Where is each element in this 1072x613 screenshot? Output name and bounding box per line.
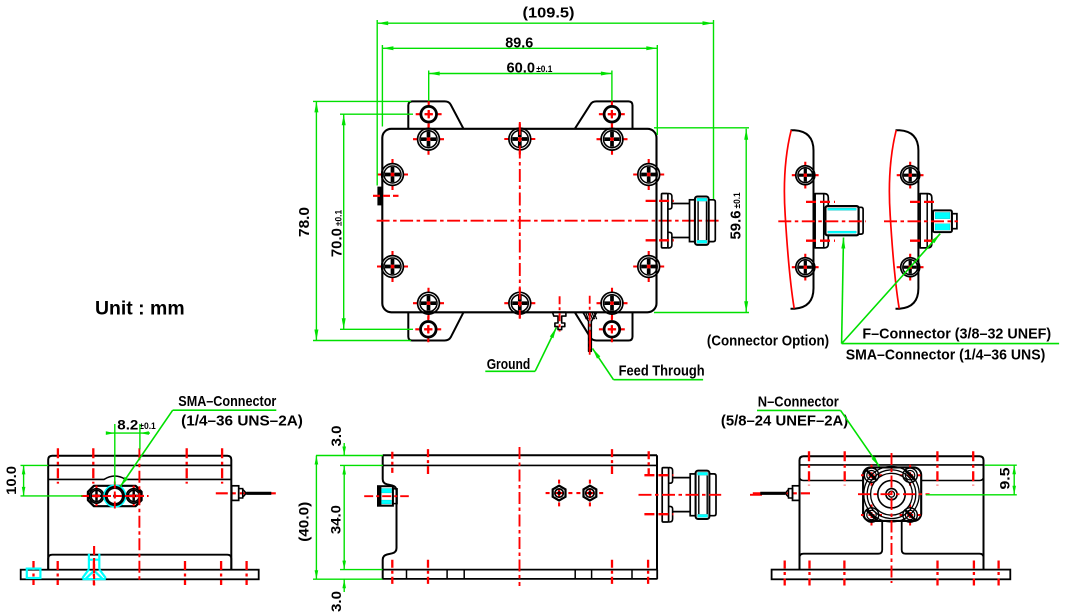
left end view: base plate <box>21 570 259 580</box>
top view: cover screw 1 <box>413 124 444 155</box>
left end view: bottom band <box>48 555 231 570</box>
option view A: flange hole centerlines <box>806 202 835 241</box>
top view: ground lug <box>553 296 566 331</box>
dimension 3.0 bottom <box>328 561 346 612</box>
top view: cover screw 6 <box>597 288 628 319</box>
option view A: screw upper <box>792 162 819 189</box>
option view A: screw lower <box>792 254 819 281</box>
top view: cover screw 9 <box>633 159 664 190</box>
option view A: break line <box>784 130 794 308</box>
top view: cover screw 8 <box>377 251 408 282</box>
left end view: base centerline ticks <box>34 561 247 585</box>
dimension 3.0 top <box>316 425 383 474</box>
right end view: N flange <box>863 467 921 521</box>
svg-text:N–Connector: N–Connector <box>758 394 839 410</box>
label (Connector Option) <box>707 333 829 349</box>
svg-text:SMA–Connector (1/4–36 UNS): SMA–Connector (1/4–36 UNS) <box>846 347 1046 363</box>
svg-text:Feed Through: Feed Through <box>619 363 705 379</box>
side view: flange hole centerlines <box>644 475 673 514</box>
label Feed Through with leader <box>593 348 705 379</box>
right end view: flange hole 2 <box>900 465 921 486</box>
dimension 78.0 tab extent <box>297 101 411 340</box>
left end view: block screw right <box>123 486 143 506</box>
left end view: countersunk screw symbol (cyan) <box>82 546 105 586</box>
option view B: screw lower <box>897 254 924 281</box>
left end view: washer symbol (cyan) <box>27 569 41 578</box>
svg-text:(1/4–36 UNS–2A): (1/4–36 UNS–2A) <box>181 414 303 430</box>
side view: connector centerline <box>639 494 763 496</box>
side view: lid seam <box>383 464 657 466</box>
dimension 8.2±0.1 <box>106 416 156 484</box>
top view: enclosure body outline <box>382 129 656 312</box>
top view: tab screw top-left <box>416 101 442 127</box>
label SMA-Connector option <box>846 347 1046 363</box>
top view: mounting tab top-left <box>408 101 463 128</box>
option view A: F-connector barrel <box>825 206 863 235</box>
left end view: screw centerline ticks (top) <box>58 448 222 483</box>
top view: cover screw 5 <box>504 288 535 319</box>
top view: tab screw top-right <box>599 101 625 127</box>
top view: tab screw bottom-right <box>599 316 625 342</box>
svg-text:SMA–Connector: SMA–Connector <box>178 394 276 410</box>
option view B: flange plate <box>920 194 932 248</box>
right end view: vertical centerline <box>891 453 893 583</box>
left end view: body outline <box>48 456 231 570</box>
left end view: connector row centerline <box>81 495 149 497</box>
dimension 10.0 <box>3 465 82 496</box>
side view: ground hex nut <box>546 480 573 507</box>
left end view: SMA connector block <box>88 486 142 506</box>
top view: mounting tab bottom-right <box>575 312 633 340</box>
label N-Connector with leader <box>721 394 880 466</box>
right end view: body outline <box>800 456 984 569</box>
dimension 89.6 body length <box>382 35 657 135</box>
dimension (40.0) <box>296 456 383 580</box>
left end view: SMA jack highlighted <box>105 486 126 507</box>
top view: cover screw 3 <box>597 124 628 155</box>
top view: cover screw 7 <box>377 159 408 190</box>
option view A: partial body outline <box>791 130 814 309</box>
right end view: lid seam <box>800 464 984 466</box>
option view B: break line <box>889 130 899 308</box>
top view: cover screw 2 <box>504 124 535 155</box>
top view: connector flange hole centerlines <box>646 201 674 240</box>
side view: vertical centerline <box>519 447 521 586</box>
svg-text:±0.1: ±0.1 <box>139 420 156 431</box>
right end view: horizontal centerline <box>858 493 930 495</box>
left end view: face seam with boss <box>48 476 231 479</box>
option view B: SMA connector barrel <box>933 210 957 232</box>
option view A: flange plate <box>815 194 828 248</box>
right end view: flange hole 1 <box>861 465 882 486</box>
svg-text:(5/8–24 UNEF–2A): (5/8–24 UNEF–2A) <box>721 414 848 430</box>
right end view: face seam <box>800 477 984 481</box>
side view: screw ticks top <box>392 449 648 476</box>
right end view: base centerline ticks <box>785 561 999 586</box>
svg-text:3.0: 3.0 <box>328 425 344 446</box>
dimension 59.6±0.1 body height <box>654 128 749 313</box>
left end view: lid seam <box>48 464 231 466</box>
svg-text:34.0: 34.0 <box>328 505 344 534</box>
dimension 60.0±0.1 tab screw spacing <box>429 61 612 102</box>
top view: tab screw bottom-left <box>415 316 441 342</box>
top view: vertical centerline <box>519 122 521 318</box>
dimension 70.0±0.1 tab screw spacing vertical <box>330 114 413 329</box>
svg-text:9.5: 9.5 <box>997 467 1013 489</box>
left end view: vertical centerline <box>138 448 140 583</box>
svg-text:(109.5): (109.5) <box>523 6 575 22</box>
side view: screw ticks bottom <box>392 560 648 584</box>
svg-text:59.6: 59.6 <box>729 211 745 240</box>
label SMA-Connector with leader <box>120 394 303 487</box>
svg-text:(40.0): (40.0) <box>296 502 312 542</box>
svg-text:78.0: 78.0 <box>297 207 313 237</box>
top view: mounting tab top-right <box>575 101 633 128</box>
dimension 9.5 <box>926 465 1017 495</box>
left end view: feed-through pin right <box>216 486 279 501</box>
top view: cover screw 10 <box>633 251 664 282</box>
dimension 34.0 <box>328 466 383 570</box>
side view: feed-through hex nut <box>576 480 603 507</box>
top view: mounting tab bottom-left <box>408 312 463 340</box>
svg-text:3.0: 3.0 <box>328 591 344 612</box>
option view B: flange hole centerlines <box>910 202 938 241</box>
dimension (109.5) total length <box>377 6 713 199</box>
top view: feed-through <box>583 296 597 358</box>
svg-text:±0.1: ±0.1 <box>732 192 743 209</box>
label Unit : mm <box>95 299 185 320</box>
option view B: partial body outline <box>896 130 919 309</box>
option view B: centerline <box>884 220 958 222</box>
right end view: screw ticks top <box>809 451 973 485</box>
top view: N-connector profile (right wall) <box>662 194 716 248</box>
top view: horizontal centerline <box>377 220 722 222</box>
right end view: flange hole 4 <box>900 505 921 526</box>
option view A: centerline <box>778 220 866 222</box>
svg-text:F–Connector (3/8–32 UNEF): F–Connector (3/8–32 UNEF) <box>862 327 1051 343</box>
right end view: N connector rings <box>864 467 919 522</box>
svg-text:8.2: 8.2 <box>117 416 138 432</box>
svg-text:(Connector Option): (Connector Option) <box>707 333 829 349</box>
top view: cover screw 4 <box>413 288 444 319</box>
svg-text:Unit : mm: Unit : mm <box>95 299 185 320</box>
right end view: bottom band and web <box>800 522 984 558</box>
left end view: SMA centerline vertical <box>114 482 116 511</box>
side view: body outline <box>383 455 657 579</box>
label Ground with leader <box>485 328 556 374</box>
right end view: flange hole 3 <box>861 505 882 526</box>
right end view: base plate <box>772 570 1011 580</box>
side view: SMA connector left <box>364 486 409 506</box>
left end view: block screw left <box>86 486 106 506</box>
option view B: screw upper <box>897 162 924 189</box>
svg-text:±0.1: ±0.1 <box>333 209 344 226</box>
svg-text:10.0: 10.0 <box>3 466 19 495</box>
side view: N-connector right <box>662 468 716 522</box>
top view: SMA connector edge-on (left wall) <box>373 187 399 206</box>
side view: base plate <box>383 570 658 579</box>
label F-Connector with leader <box>841 234 1059 344</box>
right end view: feed-through pin left <box>753 486 810 501</box>
